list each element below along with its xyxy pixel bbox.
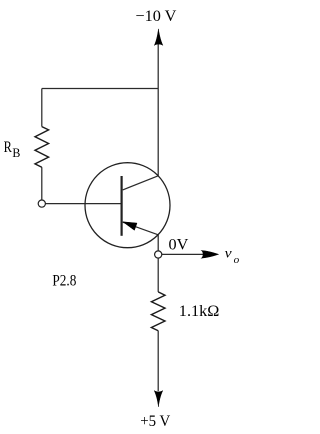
svg-text:+5 V: +5 V [140, 413, 170, 430]
svg-text:o: o [234, 254, 240, 266]
svg-text:−10 V: −10 V [135, 8, 176, 25]
svg-text:0V: 0V [169, 237, 189, 254]
svg-text:1.1kΩ: 1.1kΩ [179, 303, 220, 320]
svg-text:B: B [12, 145, 20, 160]
svg-text:P2.8: P2.8 [52, 273, 76, 290]
svg-text:v: v [225, 245, 232, 260]
svg-text:R: R [4, 139, 12, 156]
